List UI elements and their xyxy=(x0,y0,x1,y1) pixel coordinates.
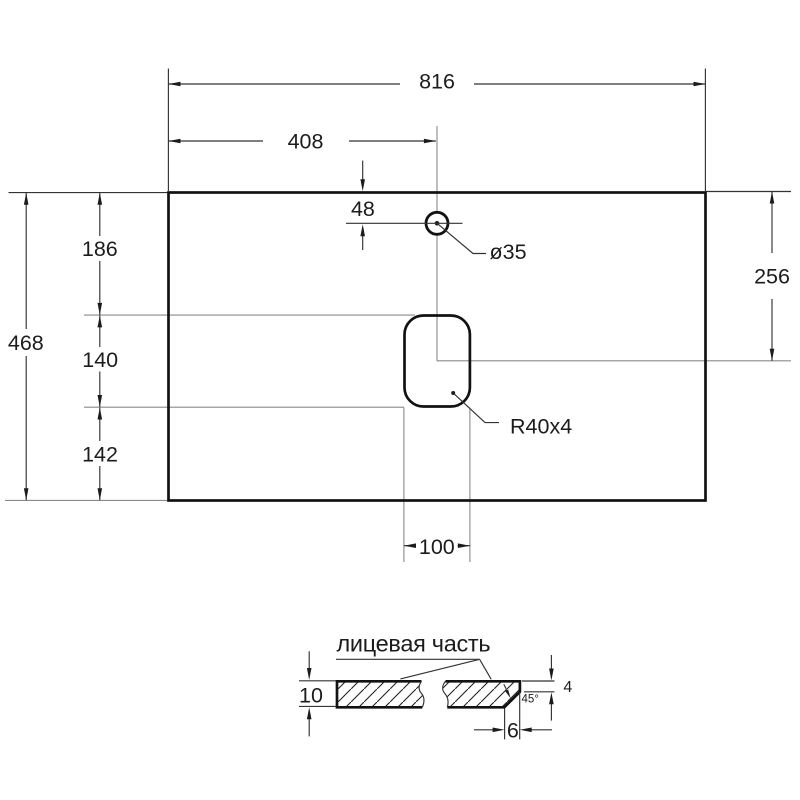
dimension 468 xyxy=(8,193,44,500)
svg-text:816: 816 xyxy=(419,69,455,93)
dimension 10 xyxy=(299,651,336,736)
ext line right at top edge (256) xyxy=(706,191,791,193)
svg-text:186: 186 xyxy=(82,237,118,261)
ext line at cutout bottom (140/142) xyxy=(84,406,404,408)
ext line below cutout right (100) xyxy=(469,408,471,563)
svg-text:R40x4: R40x4 xyxy=(510,415,572,439)
svg-text:256: 256 xyxy=(754,264,790,288)
ext line below cutout left (100) xyxy=(403,408,405,563)
section right piece hatch xyxy=(443,681,520,707)
leader o35 xyxy=(438,224,527,265)
leader 45deg xyxy=(504,684,539,705)
svg-text:142: 142 xyxy=(82,442,118,466)
svg-text:48: 48 xyxy=(351,197,375,221)
svg-text:100: 100 xyxy=(419,535,455,559)
horizontal ext line left at top edge xyxy=(9,192,169,194)
dimension 140 xyxy=(82,315,118,407)
svg-text:408: 408 xyxy=(288,129,324,153)
section right piece break line xyxy=(443,681,448,707)
extension line above right corner xyxy=(704,69,706,192)
svg-text:ø35: ø35 xyxy=(490,240,527,264)
dimension 48 xyxy=(346,161,463,250)
dimension 408 xyxy=(169,129,436,153)
leader R40x4 xyxy=(451,391,572,439)
dimension 142 xyxy=(82,408,118,501)
svg-text:10: 10 xyxy=(299,684,323,708)
label shelf line xyxy=(336,658,480,660)
svg-text:лицевая часть: лицевая часть xyxy=(337,631,491,657)
svg-text:45°: 45° xyxy=(522,693,539,705)
label leader left xyxy=(400,659,479,679)
ext line at cutout top (186/140) xyxy=(84,314,415,316)
dimension 100 xyxy=(404,535,470,559)
svg-text:4: 4 xyxy=(563,679,572,696)
section left piece outline xyxy=(337,681,422,707)
dimension 256 xyxy=(754,192,790,361)
svg-text:6: 6 xyxy=(507,719,519,743)
ext line cutout center to 256 xyxy=(437,360,791,362)
label leader right xyxy=(480,659,492,679)
faucet hole center dot xyxy=(435,221,440,226)
horizontal ext line left at bottom edge xyxy=(5,499,168,501)
dimension 4 xyxy=(522,655,572,721)
drain cutout R40 xyxy=(405,316,470,407)
dimension 6 xyxy=(474,693,552,743)
countertop outline xyxy=(169,193,706,501)
vertical centerline through hole and cutout xyxy=(436,126,438,361)
section right piece outline xyxy=(446,681,520,707)
section left piece break line xyxy=(419,681,424,707)
section left piece hatch xyxy=(337,681,424,707)
dimension 186 xyxy=(82,193,118,315)
extension line above left corner xyxy=(167,69,169,192)
faucet hole xyxy=(426,212,448,234)
svg-text:468: 468 xyxy=(8,331,44,355)
svg-text:140: 140 xyxy=(82,348,118,372)
dimension 816 xyxy=(169,69,706,93)
